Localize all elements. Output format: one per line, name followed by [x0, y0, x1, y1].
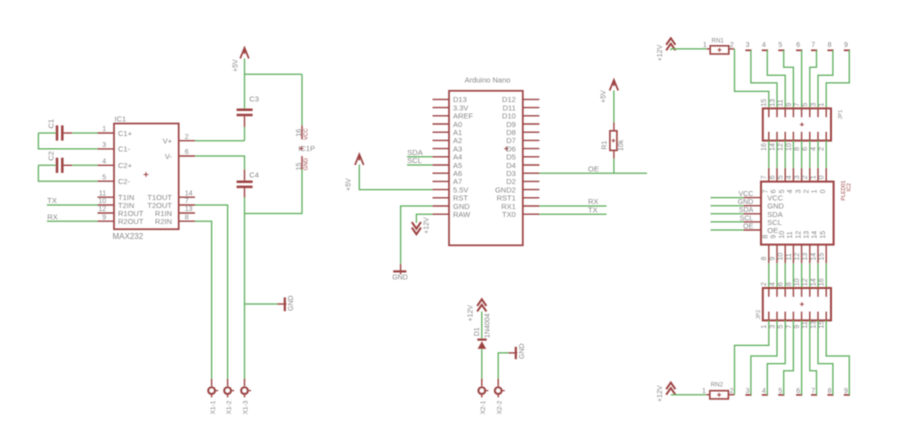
- svg-text:4: 4: [762, 42, 766, 49]
- svg-text:SCL: SCL: [740, 215, 754, 222]
- svg-text:15: 15: [819, 253, 826, 261]
- svg-text:X2-1: X2-1: [480, 400, 487, 414]
- svg-text:7: 7: [786, 325, 793, 329]
- svg-text:1: 1: [810, 175, 817, 179]
- svg-text:OE: OE: [767, 226, 778, 235]
- svg-text:+12V: +12V: [657, 44, 664, 61]
- svg-text:GND: GND: [392, 275, 408, 282]
- svg-text:MAX232: MAX232: [113, 232, 144, 241]
- svg-text:15: 15: [296, 163, 303, 171]
- svg-text:6: 6: [796, 42, 800, 49]
- svg-text:OE: OE: [743, 223, 753, 230]
- svg-text:8: 8: [761, 257, 768, 261]
- svg-text:10: 10: [786, 143, 793, 151]
- svg-text:7: 7: [811, 388, 815, 395]
- svg-text:10: 10: [779, 231, 786, 239]
- svg-text:10: 10: [794, 278, 801, 286]
- svg-text:12: 12: [794, 253, 801, 261]
- svg-text:X1-1: X1-1: [210, 400, 217, 414]
- svg-text:14: 14: [769, 143, 776, 151]
- svg-text:RAW: RAW: [453, 210, 471, 219]
- svg-text:3: 3: [746, 42, 750, 49]
- svg-text:3: 3: [795, 189, 802, 193]
- svg-text:+5V: +5V: [233, 59, 240, 72]
- svg-text:11: 11: [786, 253, 793, 260]
- svg-text:4: 4: [786, 175, 793, 179]
- svg-text:8: 8: [185, 214, 189, 221]
- svg-text:15: 15: [819, 321, 826, 329]
- svg-text:4: 4: [769, 282, 776, 286]
- svg-text:1: 1: [819, 103, 826, 107]
- svg-text:8: 8: [763, 235, 770, 239]
- svg-text:1N4004: 1N4004: [485, 313, 492, 338]
- svg-text:12: 12: [802, 278, 809, 286]
- svg-text:14: 14: [810, 253, 817, 261]
- svg-text:12: 12: [795, 231, 802, 239]
- svg-text:C1+: C1+: [118, 129, 133, 138]
- svg-text:3: 3: [810, 103, 817, 107]
- svg-text:3: 3: [746, 388, 750, 395]
- svg-text:4: 4: [787, 189, 794, 193]
- svg-text:10k: 10k: [618, 139, 625, 151]
- svg-text:1: 1: [761, 325, 768, 329]
- svg-text:JP1: JP1: [838, 110, 844, 120]
- svg-text:5: 5: [778, 42, 782, 49]
- svg-text:JP2: JP2: [756, 310, 762, 320]
- svg-text:R2IN: R2IN: [155, 217, 172, 226]
- svg-text:R2OUT: R2OUT: [118, 217, 144, 226]
- svg-text:2: 2: [804, 189, 811, 193]
- svg-text:4: 4: [810, 147, 817, 151]
- svg-text:0: 0: [820, 189, 827, 193]
- svg-text:4: 4: [102, 159, 106, 166]
- svg-text:10: 10: [778, 253, 785, 261]
- svg-text:9: 9: [786, 103, 793, 107]
- svg-text:RX: RX: [47, 212, 57, 221]
- svg-text:9: 9: [769, 257, 776, 261]
- svg-text:TX0: TX0: [502, 210, 516, 219]
- svg-text:VCC: VCC: [304, 128, 310, 140]
- svg-text:7: 7: [794, 103, 801, 107]
- svg-text:16: 16: [819, 278, 826, 286]
- svg-text:2: 2: [802, 175, 809, 179]
- svg-text:C1: C1: [47, 119, 56, 129]
- svg-text:C3: C3: [249, 94, 259, 103]
- svg-text:14: 14: [185, 190, 193, 197]
- svg-text:D1: D1: [474, 327, 481, 336]
- svg-text:15: 15: [820, 231, 827, 239]
- svg-text:5: 5: [778, 175, 785, 179]
- svg-text:8: 8: [828, 388, 832, 395]
- svg-text:V+: V+: [163, 137, 173, 146]
- svg-text:SDA: SDA: [739, 207, 754, 214]
- svg-text:GND: GND: [519, 343, 526, 359]
- svg-text:5: 5: [778, 325, 785, 329]
- svg-text:C2-: C2-: [118, 177, 131, 186]
- svg-text:GND: GND: [738, 199, 754, 206]
- svg-text:C4: C4: [249, 170, 259, 179]
- svg-text:C2: C2: [47, 151, 56, 161]
- svg-text:C1-: C1-: [118, 145, 131, 154]
- svg-text:RN2: RN2: [711, 381, 724, 388]
- svg-text:7: 7: [761, 175, 768, 179]
- svg-text:11: 11: [99, 190, 106, 197]
- svg-text:1: 1: [812, 189, 819, 193]
- svg-text:4: 4: [762, 388, 766, 395]
- svg-text:11: 11: [778, 99, 785, 106]
- svg-text:TX: TX: [588, 205, 598, 214]
- svg-text:14: 14: [810, 278, 817, 286]
- svg-text:5: 5: [778, 388, 782, 395]
- svg-text:3: 3: [769, 325, 776, 329]
- svg-text:SCL: SCL: [407, 156, 422, 165]
- svg-text:5: 5: [102, 174, 106, 181]
- svg-text:R1: R1: [602, 141, 609, 150]
- svg-text:13: 13: [804, 231, 811, 239]
- svg-text:VCC: VCC: [739, 191, 754, 198]
- svg-text:6: 6: [796, 388, 800, 395]
- svg-text:3: 3: [794, 175, 801, 179]
- svg-text:9: 9: [771, 235, 778, 239]
- svg-text:2: 2: [761, 282, 768, 286]
- svg-text:16: 16: [296, 129, 303, 137]
- svg-text:15: 15: [761, 99, 768, 107]
- svg-text:3: 3: [102, 142, 106, 149]
- svg-text:8: 8: [786, 282, 793, 286]
- svg-text:+5V: +5V: [346, 178, 353, 191]
- svg-text:C2+: C2+: [118, 161, 133, 170]
- svg-text:9: 9: [844, 42, 848, 49]
- svg-text:+12V: +12V: [467, 305, 474, 322]
- svg-text:16: 16: [761, 143, 768, 151]
- svg-text:2: 2: [819, 147, 826, 151]
- svg-text:2: 2: [730, 42, 734, 49]
- svg-text:12: 12: [778, 143, 785, 151]
- svg-text:7: 7: [811, 42, 815, 49]
- svg-text:11: 11: [787, 231, 794, 238]
- svg-text:6: 6: [185, 149, 189, 156]
- svg-text:10: 10: [98, 198, 106, 205]
- svg-text:GND: GND: [288, 295, 295, 311]
- svg-text:12: 12: [98, 206, 106, 213]
- svg-text:+12V: +12V: [657, 385, 664, 402]
- svg-text:9: 9: [102, 214, 106, 221]
- svg-text:5: 5: [802, 103, 809, 107]
- svg-text:+5V: +5V: [601, 90, 608, 103]
- svg-text:IC1: IC1: [115, 115, 127, 124]
- svg-text:2: 2: [185, 134, 189, 141]
- svg-text:RN1: RN1: [712, 38, 725, 45]
- svg-text:X2-2: X2-2: [496, 400, 503, 414]
- svg-text:GND: GND: [304, 158, 310, 170]
- svg-text:1: 1: [102, 126, 106, 133]
- svg-text:6: 6: [802, 147, 809, 151]
- svg-text:X1-2: X1-2: [226, 400, 233, 414]
- svg-text:14: 14: [812, 231, 819, 239]
- svg-text:TX: TX: [47, 196, 57, 205]
- svg-text:IC2: IC2: [847, 183, 853, 191]
- svg-text:X1-3: X1-3: [243, 400, 250, 414]
- svg-text:V-: V-: [165, 152, 173, 161]
- svg-text:8: 8: [794, 147, 801, 151]
- svg-text:6: 6: [769, 175, 776, 179]
- svg-text:1: 1: [703, 42, 707, 49]
- svg-text:13: 13: [810, 321, 817, 329]
- svg-text:13: 13: [185, 206, 193, 213]
- svg-text:9: 9: [794, 325, 801, 329]
- svg-text:13: 13: [769, 99, 776, 107]
- svg-text:8: 8: [828, 42, 832, 49]
- svg-text:+12V: +12V: [423, 217, 430, 234]
- svg-text:9: 9: [844, 388, 848, 395]
- svg-text:OE: OE: [588, 164, 599, 173]
- svg-text:11: 11: [802, 321, 809, 328]
- svg-text:13: 13: [802, 253, 809, 261]
- svg-text:7: 7: [185, 198, 189, 205]
- svg-text:Arduino Nano: Arduino Nano: [465, 76, 511, 85]
- svg-text:6: 6: [778, 282, 785, 286]
- svg-text:0: 0: [819, 175, 826, 179]
- svg-text:1: 1: [702, 388, 706, 395]
